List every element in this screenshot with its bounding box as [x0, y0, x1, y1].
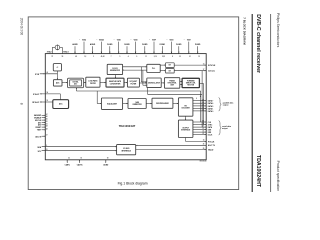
svg-text:XTALI: XTALI: [47, 50, 52, 53]
wire fec output down: [199, 82, 203, 84]
svg-text:7 BLOCK DIAGRAM: 7 BLOCK DIAGRAM: [242, 17, 246, 45]
svg-text:DIV: DIV: [169, 70, 171, 72]
wire pll to clockgen: [123, 69, 147, 71]
svg-text:DGND: DGND: [195, 44, 201, 46]
wire chain demod to framesync: [161, 82, 164, 84]
wire pll to div1: [160, 64, 165, 66]
wire serial out pin DEN: [193, 129, 206, 131]
wire deinterleaver to rs decoder: [173, 103, 179, 105]
block NYQUIST FILTER: [127, 78, 139, 87]
wire serial out pin CLK: [193, 121, 206, 123]
svg-text:CONVERTER: CONVERTER: [110, 83, 121, 85]
node brace parallel group: [219, 98, 222, 111]
wire div1 to CLK pin: [174, 64, 206, 66]
svg-text:SYNCHRON-: SYNCHRON-: [168, 82, 178, 84]
svg-text:51: 51: [46, 123, 48, 125]
wire SCL: [42, 150, 117, 152]
wire clock drop 2: [142, 70, 144, 85]
wire top pin 10: [153, 42, 155, 54]
block DIGITAL AGC outer: [68, 78, 84, 88]
wire top pin 5: [109, 46, 111, 53]
wire serial out pin ERR: [193, 131, 206, 133]
svg-text:9: 9: [136, 56, 137, 58]
svg-text:fS: fS: [57, 67, 59, 69]
wire RF AGC pin: [40, 101, 53, 103]
wire left pin AS0: [42, 124, 46, 126]
block FRAME SYNCHRONIZER: [164, 78, 179, 89]
wire chain nyquist to demod: [139, 82, 146, 84]
svg-text:21: 21: [189, 56, 191, 58]
svg-text:DVB-C channel receiver: DVB-C channel receiver: [255, 14, 261, 73]
svg-text:55: 55: [62, 56, 64, 58]
wire chain lpf to src: [100, 82, 106, 84]
wire top pin 3: [92, 46, 94, 53]
wire top pin 12: [171, 42, 173, 54]
svg-text:RECTION: RECTION: [187, 84, 194, 86]
svg-text:33: 33: [179, 56, 181, 58]
wire top pin 11: [161, 46, 163, 53]
svg-text:TDA10024HT: TDA10024HT: [255, 155, 261, 188]
svg-text:11: 11: [145, 56, 147, 58]
wire IF input: [40, 73, 58, 75]
wire parallel out pin DATA 5: [193, 105, 206, 107]
wire parallel out pin DATA 0: [193, 110, 206, 112]
node figure-frame: [28, 17, 239, 190]
svg-text:C: C: [79, 38, 80, 40]
svg-text:INTERFACE: INTERFACE: [121, 149, 131, 152]
block SAMPLE RATE CONVERTER: [106, 78, 124, 87]
wire chain src to nyquist: [124, 82, 127, 84]
block LOW-PASS FILTER: [86, 77, 100, 87]
node brace serial group: [219, 121, 222, 135]
wire parallel out pin DATA 7: [193, 100, 206, 102]
node header-rule-title: [251, 14, 253, 192]
wire top pin 2: [83, 42, 85, 54]
svg-text:AGND: AGND: [103, 164, 109, 167]
svg-text:52: 52: [47, 100, 49, 102]
block ADC: [53, 80, 62, 86]
svg-text:37: 37: [46, 135, 48, 137]
node header-rule-top: [270, 14, 272, 192]
svg-text:VDDD: VDDD: [117, 40, 121, 42]
block RS DECODER: [178, 98, 193, 116]
wire chain agc to lpf: [84, 82, 86, 84]
svg-text:VDDT: VDDT: [187, 40, 191, 42]
block DIGITAL AGC inner: [70, 80, 82, 86]
svg-text:C: C: [166, 38, 167, 40]
svg-text:10: 10: [46, 149, 48, 151]
svg-text:PLL: PLL: [152, 68, 155, 70]
svg-text:DGND: DGND: [107, 44, 113, 46]
svg-text:DGND: DGND: [124, 44, 130, 46]
block CLOCK GENERATOR: [107, 64, 122, 74]
svg-text:VDDP: VDDP: [152, 40, 156, 42]
svg-text:DECODER: DECODER: [182, 108, 191, 110]
wire left pin RESET: [42, 126, 46, 128]
svg-text:C: C: [96, 38, 97, 40]
wire div2 to clk pin2: [174, 70, 206, 72]
wire serial out pin DATA: [193, 126, 206, 128]
svg-text:VDDO: VDDO: [169, 40, 173, 42]
wire top pin 15: [197, 46, 199, 53]
wire top pin 4: [100, 42, 102, 54]
wire clockgen down to src: [114, 75, 116, 79]
wire equalizer to demapper: [123, 103, 128, 105]
svg-text:Philips Semiconductors: Philips Semiconductors: [276, 13, 280, 48]
svg-text:AGND: AGND: [72, 43, 78, 46]
wire top pin 14: [188, 42, 190, 54]
wire left pin MOCLK: [42, 119, 46, 121]
wire left pin TEST: [42, 129, 46, 131]
svg-text:C(EXT): C(EXT): [77, 165, 83, 167]
wire top pin 8: [135, 42, 137, 54]
wire feedback W2: [148, 93, 203, 95]
svg-text:60: 60: [81, 158, 83, 160]
svg-text:RESET: RESET: [36, 127, 43, 129]
svg-text:IF IN: IF IN: [35, 74, 40, 76]
wire serial out pin SYNC: [193, 124, 206, 126]
svg-text:AGND: AGND: [90, 43, 96, 46]
svg-text:DGND: DGND: [160, 44, 166, 46]
svg-text:Fig.1 Block diagram: Fig.1 Block diagram: [118, 182, 148, 186]
svg-text:15: 15: [198, 56, 200, 58]
svg-text:ADC IN: ADC IN: [35, 135, 42, 138]
svg-text:C: C: [184, 38, 185, 40]
svg-text:62: 62: [68, 158, 70, 160]
svg-text:CLK [1]: CLK [1]: [208, 71, 215, 73]
block PLL: [147, 64, 160, 72]
svg-text:13: 13: [203, 63, 205, 65]
wire demapper to deinterleaver: [146, 103, 152, 105]
svg-text:50: 50: [46, 121, 48, 123]
svg-text:26: 26: [203, 144, 205, 146]
wire parallel out pin DATA 1: [193, 107, 206, 109]
wire top pin 7: [126, 46, 128, 53]
svg-text:RS: RS: [185, 106, 187, 108]
svg-text:17: 17: [203, 69, 205, 71]
wire chain framesync to fec bus: [180, 81, 182, 83]
svg-text:IF AGC: IF AGC: [33, 93, 40, 96]
svg-text:output: output: [222, 127, 228, 130]
op-amp U1 chip outline TDA10024HT: [45, 54, 206, 160]
svg-text:POCLK: POCLK: [208, 141, 215, 143]
wire top pin 6: [118, 42, 120, 54]
block DEMODULATOR: [147, 78, 161, 88]
wire left pin AS1: [42, 121, 46, 123]
wire top pin 13: [178, 46, 180, 53]
wire output interface bottom pin: [185, 138, 187, 142]
svg-text:CLOCK: CLOCK: [112, 68, 119, 70]
wire bottom pin C(INT): [66, 160, 68, 163]
wire left pin SADUMP: [42, 114, 46, 116]
svg-text:2004 Oct 06: 2004 Oct 06: [20, 18, 24, 36]
svg-text:25: 25: [203, 148, 205, 150]
wire chain adc to agc: [62, 82, 68, 84]
svg-text:DIV: DIV: [169, 65, 171, 67]
wire feedback W1: [76, 90, 200, 92]
svg-text:SYSCLK: SYSCLK: [208, 65, 216, 67]
wire left pin ADCIN: [42, 135, 46, 137]
svg-text:2,10: 2,10: [154, 56, 157, 58]
node clock fs box: [53, 64, 61, 71]
block AGC: [53, 100, 69, 109]
wire top pin 9: [144, 46, 146, 53]
wire serial out pin DCLK: [193, 134, 206, 136]
svg-text:5,35: 5,35: [162, 56, 165, 58]
wire rs decoder to output interface: [185, 116, 187, 120]
wire i2c to right pin 1: [136, 144, 207, 146]
svg-text:output: output: [223, 104, 229, 107]
wire IF AGC out pin: [40, 93, 61, 95]
svg-text:C: C: [131, 38, 132, 40]
svg-text:FILTER: FILTER: [131, 83, 138, 85]
block OUTPUT INTERFACE: [178, 120, 193, 137]
svg-text:TDA10024HT: TDA10024HT: [119, 124, 136, 128]
svg-text:FILTER: FILTER: [90, 83, 97, 85]
block I2C-BUS INTERFACE: [117, 145, 136, 155]
svg-text:C: C: [114, 38, 115, 40]
wire left pin ENABLE: [42, 117, 46, 119]
block DEINTERLEAVER: [152, 98, 173, 108]
svg-text:58: 58: [107, 158, 109, 160]
block EQUALIZER: [101, 98, 122, 109]
svg-text:1,2: 1,2: [84, 56, 86, 58]
wire i2c to right pin 2: [136, 149, 207, 151]
svg-text:OUTPUT: OUTPUT: [182, 127, 189, 129]
svg-text:AGC TS: AGC TS: [208, 144, 216, 147]
wire top pin 1: [74, 46, 76, 53]
crystal X1 oscillator symbol: [55, 45, 60, 50]
svg-text:DGND: DGND: [176, 44, 182, 46]
wire clock drop 1: [140, 67, 142, 82]
wire xtal stubs: [51, 47, 53, 53]
wire parallel out pin DATA 6: [193, 102, 206, 104]
wire bottom pin AGND: [105, 160, 107, 163]
svg-text:DGND: DGND: [142, 44, 148, 46]
svg-text:VALID: VALID: [208, 149, 214, 152]
svg-text:Product specification: Product specification: [276, 161, 280, 192]
svg-text:57: 57: [51, 56, 53, 58]
block FEC: [182, 78, 199, 87]
svg-text:RF AGC: RF AGC: [32, 101, 40, 104]
svg-text:ERROR COR-: ERROR COR-: [186, 82, 196, 84]
svg-text:EQUALIZER: EQUALIZER: [107, 102, 118, 105]
svg-text:C: C: [149, 38, 150, 40]
svg-text:C(INT): C(INT): [65, 165, 70, 167]
wire SDA: [42, 146, 117, 148]
block DIV2: [166, 69, 175, 73]
wire clockgen to pll: [123, 66, 147, 68]
wire feedback branch to equalizer: [96, 91, 98, 104]
block QAM DEMAPPER: [128, 99, 146, 109]
wire fs to adc: [56, 71, 58, 80]
svg-text:XTALO: XTALO: [63, 50, 69, 53]
svg-text:8: 8: [19, 103, 23, 105]
block DIV1: [166, 63, 175, 68]
svg-text:VDDD: VDDD: [134, 40, 138, 42]
wire bottom pin C(EXT): [79, 160, 81, 163]
wire pll to div2: [160, 70, 165, 72]
